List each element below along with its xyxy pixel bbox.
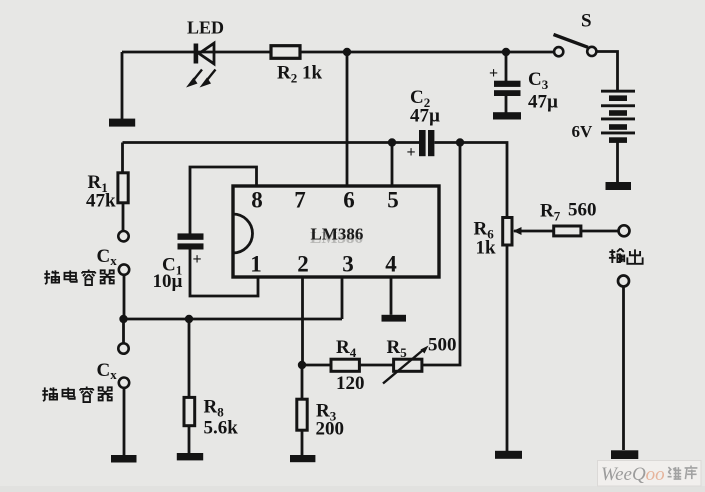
wire C3 lower lead: [505, 96, 508, 113]
resistor R2: [271, 46, 300, 59]
wire top supply rail: [122, 51, 554, 54]
wire R6 wiper to R7: [514, 230, 554, 233]
svg-text:Cx: Cx: [97, 246, 118, 268]
svg-text:120: 120: [336, 373, 365, 394]
node junction pin5 C2: [388, 138, 396, 146]
wire input bus: [124, 318, 343, 321]
wire LED branch vertical: [121, 52, 124, 119]
node junction top rail pin6: [343, 48, 351, 56]
wire output lower terminal to ground: [622, 287, 625, 451]
wire C1 loop bottom (pin 1): [190, 250, 258, 297]
svg-text:3: 3: [342, 252, 354, 277]
ground pin 4: [382, 315, 407, 322]
svg-text:560: 560: [568, 200, 597, 221]
svg-text:200: 200: [316, 419, 345, 440]
ground C3: [493, 112, 521, 119]
resistor R3: [297, 399, 307, 430]
potentiometer R6: [503, 218, 522, 246]
svg-text:500: 500: [428, 335, 457, 356]
svg-text:10µ: 10µ: [153, 271, 183, 292]
wire C1 loop top (pin 8): [190, 167, 257, 234]
capacitor C3 plates: [494, 81, 521, 96]
label output chinese 输出: [609, 249, 643, 264]
svg-text:1k: 1k: [476, 238, 497, 259]
ground R8: [177, 453, 203, 460]
ground output: [611, 450, 638, 459]
terminal Cx1 upper: [118, 231, 128, 241]
wire pin 2 down to R3/R4 node: [301, 277, 304, 365]
wire mid rail R1 to C2: [123, 141, 420, 144]
ground LED branch: [109, 119, 135, 127]
rheostat R5: [383, 346, 429, 384]
wire terminal Cx1 lower to junction: [123, 275, 126, 319]
wire pin 5 drop: [391, 143, 394, 187]
svg-text:S: S: [581, 11, 592, 32]
resistor R7: [554, 226, 581, 236]
label Cx2 chinese 插电容器: [42, 387, 112, 403]
ground Cx2: [111, 455, 137, 463]
svg-text:47k: 47k: [86, 191, 116, 212]
svg-text:47µ: 47µ: [528, 92, 558, 113]
op-amp U1 LM386 body: [233, 186, 439, 277]
svg-text:4: 4: [385, 252, 397, 277]
svg-text:LED: LED: [187, 18, 224, 38]
svg-text:7: 7: [294, 188, 306, 213]
LED D1 symbol: [186, 43, 216, 87]
wire R7 to output terminal: [581, 230, 619, 233]
svg-text:+: +: [407, 144, 416, 161]
ground battery: [606, 182, 632, 190]
svg-text:LM386: LM386: [311, 225, 364, 244]
svg-text:C3: C3: [528, 69, 549, 92]
node junction C2 right: [456, 138, 464, 146]
wire R1 top lead: [121, 143, 124, 173]
resistor R8: [184, 397, 195, 425]
resistor R4: [331, 359, 359, 371]
svg-text:R5: R5: [387, 337, 408, 360]
node junction top rail C3: [502, 48, 510, 56]
wire terminal Cx2 lower to ground: [123, 388, 126, 455]
svg-text:R4: R4: [336, 337, 357, 360]
terminal output lower: [618, 276, 629, 287]
node junction R3 R4: [298, 361, 306, 369]
battery 6V: [601, 90, 635, 143]
wire R8 bottom lead: [188, 426, 191, 453]
terminal Cx1 lower: [119, 264, 129, 274]
svg-text:R2 1k: R2 1k: [277, 63, 322, 86]
terminal Cx2 lower: [119, 378, 129, 388]
svg-text:47µ: 47µ: [410, 106, 440, 127]
label Cx1 chinese 插电容器: [44, 270, 114, 286]
node junction input bus left: [119, 315, 127, 323]
ground R3: [290, 455, 315, 462]
terminal Cx2 upper: [118, 343, 128, 353]
wire pin 3 drop: [341, 277, 344, 319]
wire pin 6 drop from supply: [346, 52, 349, 186]
svg-text:R8: R8: [204, 397, 225, 420]
wire battery to ground: [616, 142, 619, 183]
svg-text:+: +: [489, 65, 498, 82]
svg-text:5.6k: 5.6k: [204, 418, 239, 439]
wire C2 right to R6 branch corner: [435, 143, 508, 218]
wire R4 left: [302, 364, 331, 367]
wire R8 top lead: [188, 319, 191, 397]
watermark WeeQoo: [598, 461, 702, 487]
wire C3 upper lead: [505, 52, 508, 81]
wire R4 to R5: [360, 364, 394, 367]
wire switch to battery: [596, 52, 618, 91]
svg-text:WeeQoo: WeeQoo: [601, 464, 665, 485]
wire R5 right up to C2 node: [422, 143, 460, 366]
capacitor C2 plates: [419, 130, 434, 156]
terminal output upper: [619, 225, 630, 236]
svg-text:1: 1: [250, 252, 262, 277]
wire R3 top lead: [301, 365, 304, 399]
wire R1 bottom lead to terminal: [122, 203, 125, 231]
ground R6 branch: [495, 451, 522, 459]
wire R6 bottom to ground: [506, 245, 509, 451]
capacitor C1 plates: [178, 233, 204, 249]
switch S: [554, 35, 597, 57]
wire pin 4 drop: [390, 277, 393, 315]
node junction R8: [185, 315, 193, 323]
wire junction down to terminal Cx2: [122, 319, 125, 343]
resistor R1: [118, 173, 128, 203]
svg-text:5: 5: [387, 188, 399, 213]
svg-text:8: 8: [251, 188, 263, 213]
svg-text:Cx: Cx: [97, 360, 118, 382]
svg-text:+: +: [193, 251, 202, 268]
svg-text:6V: 6V: [572, 122, 594, 141]
scanner shading bottom edge: [0, 486, 705, 492]
svg-text:6: 6: [343, 188, 355, 213]
svg-text:2: 2: [297, 252, 309, 277]
wire R3 bottom lead: [301, 430, 304, 455]
svg-text:R7: R7: [540, 201, 561, 224]
